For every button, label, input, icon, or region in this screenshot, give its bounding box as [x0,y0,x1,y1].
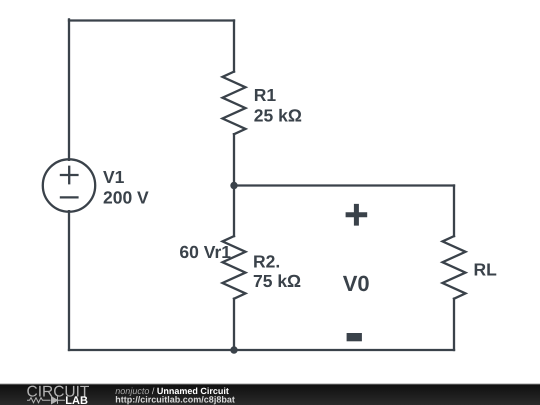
svg-text:http://circuitlab.com/c8j8bat: http://circuitlab.com/c8j8bat [115,394,235,404]
svg-text:25 kΩ: 25 kΩ [254,106,302,126]
svg-text:V1: V1 [103,167,125,187]
svg-text:V0: V0 [343,271,370,296]
node junction A [230,182,237,189]
wire bottom [69,349,454,351]
logo resistor-diode glyph [27,397,65,404]
svg-text:R1: R1 [254,85,277,105]
resistor R2 [223,236,246,299]
wire R2 bottom lead [233,299,235,350]
wire RL top lead [453,186,455,237]
svg-text:60 Vr1: 60 Vr1 [179,242,231,262]
footer bar [0,383,540,384]
resistor RL [443,236,466,299]
svg-text:RL: RL [474,260,498,280]
svg-text:200 V: 200 V [103,188,149,208]
V0 plus sign [346,204,368,226]
wire R2 top lead [233,186,235,237]
svg-text:R2.: R2. [253,252,280,272]
wire RL bottom lead [453,299,455,350]
wire left upper [68,19,70,159]
voltage source V1 [43,159,95,211]
svg-text:75 kΩ: 75 kΩ [253,271,301,291]
wire top [69,19,234,21]
wire R1 bottom lead [233,134,235,185]
wire left lower [68,211,70,350]
node junction B [230,346,237,353]
V0 minus sign [347,333,362,341]
resistor R1 [223,72,246,135]
wire R1 top lead [233,21,235,72]
wire middle [234,184,454,186]
svg-text:LAB: LAB [65,395,88,405]
